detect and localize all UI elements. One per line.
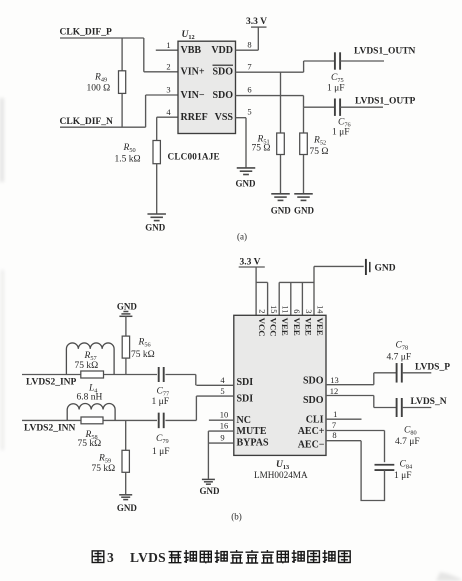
svg-text:VSS: VSS — [215, 112, 234, 123]
svg-text:VEE: VEE — [280, 318, 290, 336]
svg-text:1 μF: 1 μF — [152, 397, 170, 407]
svg-text:100 Ω: 100 Ω — [87, 84, 111, 94]
svg-text:VEE: VEE — [303, 318, 313, 336]
svg-text:SDO: SDO — [212, 67, 233, 78]
svg-text:6.8 nH: 6.8 nH — [77, 393, 103, 403]
svg-text:4.7 μF: 4.7 μF — [395, 437, 420, 447]
svg-text:GND: GND — [200, 486, 221, 496]
svg-text:1 μF: 1 μF — [152, 447, 170, 457]
svg-text:VEE: VEE — [292, 318, 302, 336]
svg-text:GND: GND — [117, 503, 138, 513]
svg-text:SDI: SDI — [237, 393, 254, 404]
svg-text:1 μF: 1 μF — [327, 84, 345, 94]
svg-text:75 kΩ: 75 kΩ — [131, 350, 155, 360]
svg-text:3: 3 — [166, 85, 170, 95]
svg-text:AEC+: AEC+ — [298, 426, 325, 437]
svg-text:LVDS: LVDS — [130, 550, 166, 565]
svg-text:11: 11 — [281, 305, 290, 313]
svg-text:LVDS_N: LVDS_N — [411, 397, 447, 407]
svg-text:2: 2 — [166, 62, 170, 72]
svg-text:75 kΩ: 75 kΩ — [75, 361, 99, 371]
svg-text:VBB: VBB — [181, 45, 202, 56]
svg-text:GND: GND — [145, 223, 166, 233]
svg-text:VIN+: VIN+ — [181, 67, 205, 78]
svg-text:2: 2 — [258, 309, 267, 313]
svg-text:SDI: SDI — [237, 377, 254, 388]
svg-text:LVDS2_INN: LVDS2_INN — [24, 423, 76, 433]
svg-text:15: 15 — [269, 305, 278, 313]
svg-text:75 Ω: 75 Ω — [252, 144, 271, 154]
svg-text:GND: GND — [117, 302, 138, 312]
svg-text:SDO: SDO — [303, 376, 324, 387]
svg-text:1: 1 — [333, 409, 337, 419]
svg-text:(b): (b) — [231, 512, 242, 522]
svg-text:LVDS1_OUTP: LVDS1_OUTP — [355, 97, 416, 107]
svg-text:VEE: VEE — [315, 318, 325, 336]
svg-text:5: 5 — [247, 107, 251, 117]
svg-text:VDD: VDD — [211, 45, 233, 56]
svg-text:CLI: CLI — [306, 414, 324, 425]
svg-text:10: 10 — [220, 410, 229, 420]
svg-text:7: 7 — [332, 420, 336, 430]
svg-text:LVDS1_OUTN: LVDS1_OUTN — [354, 47, 416, 57]
svg-text:BYPAS: BYPAS — [237, 438, 269, 449]
svg-text:VCC: VCC — [269, 318, 279, 337]
svg-text:7: 7 — [247, 61, 251, 71]
svg-text:CLK_DIF_N: CLK_DIF_N — [60, 117, 113, 127]
svg-text:GND: GND — [271, 206, 292, 216]
svg-text:3.3 V: 3.3 V — [240, 257, 261, 267]
svg-text:75 Ω: 75 Ω — [310, 147, 329, 157]
svg-text:1.5 kΩ: 1.5 kΩ — [115, 155, 141, 165]
svg-text:RREF: RREF — [181, 112, 208, 123]
svg-text:VCC: VCC — [257, 318, 267, 337]
svg-text:5: 5 — [220, 386, 224, 396]
svg-text:1 μF: 1 μF — [394, 471, 412, 481]
svg-text:GND: GND — [294, 206, 315, 216]
svg-text:16: 16 — [220, 421, 229, 431]
svg-text:75 kΩ: 75 kΩ — [78, 439, 102, 449]
svg-text:3: 3 — [304, 309, 313, 313]
svg-text:(a): (a) — [237, 232, 247, 242]
svg-text:1 μF: 1 μF — [332, 128, 350, 138]
svg-text:3: 3 — [107, 550, 114, 565]
svg-text:LMH0024MA: LMH0024MA — [254, 470, 308, 480]
svg-text:NC: NC — [237, 415, 251, 426]
svg-text:1: 1 — [166, 40, 170, 50]
svg-text:AEC−: AEC− — [298, 440, 325, 451]
svg-text:6: 6 — [247, 85, 251, 95]
svg-text:GND: GND — [236, 179, 257, 189]
svg-text:MUTE: MUTE — [237, 426, 267, 437]
svg-text:9: 9 — [220, 433, 224, 443]
svg-text:12: 12 — [330, 386, 339, 396]
svg-text:13: 13 — [330, 375, 339, 385]
svg-text:VIN−: VIN− — [181, 90, 205, 101]
svg-text:3.3 V: 3.3 V — [246, 17, 267, 27]
svg-text:4.7 μF: 4.7 μF — [387, 353, 412, 363]
svg-text:CLC001AJE: CLC001AJE — [168, 152, 220, 162]
svg-text:14: 14 — [315, 305, 324, 314]
svg-text:75 kΩ: 75 kΩ — [92, 464, 116, 474]
svg-text:SDO: SDO — [303, 395, 324, 406]
svg-text:6: 6 — [292, 309, 301, 313]
svg-text:LVDS_P: LVDS_P — [415, 362, 450, 372]
svg-text:CLK_DIF_P: CLK_DIF_P — [60, 27, 112, 37]
svg-text:LVDS2_INP: LVDS2_INP — [26, 377, 77, 387]
svg-text:GND: GND — [375, 263, 396, 273]
svg-text:8: 8 — [332, 430, 336, 440]
svg-text:SDO: SDO — [212, 90, 233, 101]
svg-text:8: 8 — [247, 40, 251, 50]
